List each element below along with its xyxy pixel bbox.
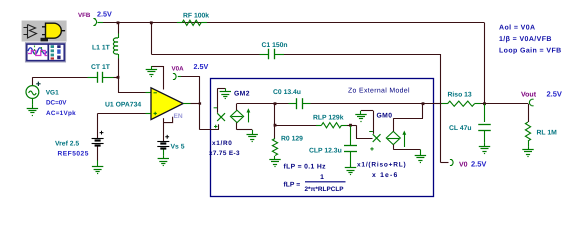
- wire: GM2 out to C0: [237, 103, 289, 105]
- resistor RL: [528, 104, 530, 122]
- svg-text:AC=1Vpk: AC=1Vpk: [46, 110, 76, 117]
- wire: top feedback net VFB: [103, 22, 485, 24]
- opamp input polarity marks: [154, 92, 157, 94]
- junction at R0 branch: [274, 102, 277, 105]
- wire: CLP node to GM0 X input: [351, 125, 357, 127]
- svg-text:2.5V: 2.5V: [194, 62, 209, 71]
- wire: GM2 diamond top to C0 net: [236, 104, 238, 111]
- svg-text:Aol = V0A: Aol = V0A: [499, 24, 535, 32]
- svg-text:Zo External Model: Zo External Model: [348, 88, 410, 95]
- wire: inverting input branch: [118, 77, 120, 93]
- Zo External Model box: [211, 79, 434, 197]
- wire: opamp output into GM2 input: [199, 104, 201, 130]
- svg-text:fLP = 0.1 Hz: fLP = 0.1 Hz: [284, 164, 327, 171]
- resistor RLP: [316, 125, 322, 127]
- wire: GM2 X top to ground: [217, 88, 219, 113]
- plus mark VG1: [36, 82, 40, 86]
- dependent source GM2 diamond: [230, 110, 243, 122]
- svg-text:CLP 12.3u: CLP 12.3u: [309, 148, 342, 155]
- svg-text:Vref 2.5: Vref 2.5: [55, 141, 79, 148]
- junction at RLP branch: [274, 124, 277, 127]
- wire: R0 branch vertical: [274, 104, 276, 139]
- node V0 voltage probe: [451, 160, 453, 166]
- ground at R0: [274, 156, 276, 159]
- wire: opamp V+ pin to ground: [163, 66, 165, 90]
- ground at Vs: [163, 150, 165, 156]
- svg-text:x1/R0: x1/R0: [212, 140, 233, 147]
- capacitor C1: [260, 54, 269, 56]
- svg-text:fLP =: fLP =: [284, 182, 301, 189]
- svg-text:GM2: GM2: [234, 91, 250, 98]
- svg-text:U1 OPA734: U1 OPA734: [105, 102, 141, 109]
- svg-text:GM0: GM0: [377, 113, 393, 120]
- junction at CLP: [349, 124, 352, 127]
- icon toolbar: results list button: [47, 44, 49, 61]
- junction at C1 branch: [150, 21, 153, 24]
- icon toolbar: gate symbols button: [22, 21, 67, 42]
- ground at VG1: [32, 98, 34, 104]
- wire: EN pin jog: [163, 117, 172, 123]
- wire: opamp V- pin to Vs battery: [163, 118, 165, 141]
- svg-text:RLP 129k: RLP 129k: [313, 115, 344, 122]
- ground at Vref: [97, 147, 99, 161]
- ground at GM0 output: [420, 150, 422, 156]
- wire: V0 probe stub: [441, 162, 449, 164]
- wire: L1 to CT junction: [118, 70, 120, 77]
- wire: GM2 diamond bottom to ground: [236, 123, 238, 130]
- svg-text:2.5V: 2.5V: [547, 90, 562, 99]
- wire: GM0 X top to ground: [373, 111, 375, 134]
- svg-text:1/β = V0A/VFB: 1/β = V0A/VFB: [499, 35, 552, 43]
- svg-text:2.5V: 2.5V: [471, 160, 486, 169]
- svg-text:Loop Gain = VFB: Loop Gain = VFB: [499, 47, 562, 55]
- ground at GM0 input: [360, 111, 362, 114]
- junction at GM0 output: [422, 102, 425, 105]
- node Vout voltage probe: [529, 100, 531, 106]
- junction at L1 top: [117, 21, 120, 24]
- wire: RF feedback vertical to output node: [484, 23, 486, 104]
- svg-text:CL 47u: CL 47u: [449, 125, 472, 132]
- wire: V0A probe branch: [199, 77, 201, 104]
- multiplier X GM2: [217, 113, 225, 121]
- inductor L1: [118, 23, 120, 34]
- svg-text:RF 100k: RF 100k: [183, 13, 209, 20]
- wire: VG1 to CT: [32, 77, 87, 79]
- ground at GM2 output: [252, 130, 254, 135]
- svg-text:x7.75 E-3: x7.75 E-3: [209, 150, 240, 157]
- resistor RF (in top wire): [177, 22, 182, 24]
- capacitor CT: [88, 77, 98, 79]
- svg-text:x1/(Riso+RL): x1/(Riso+RL): [357, 162, 407, 169]
- svg-text:C1 150n: C1 150n: [262, 42, 288, 49]
- ground at CL: [484, 143, 486, 146]
- svg-text:V0: V0: [459, 162, 468, 169]
- battery Vs: [157, 141, 169, 143]
- junction at output/V0A: [199, 102, 201, 104]
- plus mark GM0 input: [370, 147, 373, 150]
- wire: C1 to V0 sense vertical: [284, 54, 441, 56]
- svg-text:1: 1: [320, 174, 324, 181]
- ground at RL: [528, 146, 530, 149]
- ground at opamp V+: [151, 66, 153, 69]
- plus mark Vref: [100, 131, 104, 135]
- icon toolbar: waveform viewer button: [26, 43, 66, 62]
- svg-text:CT 1T: CT 1T: [91, 64, 111, 71]
- wire: Riso to Vout node: [481, 103, 529, 105]
- node V0A voltage probe: [174, 74, 176, 80]
- svg-text:DC=0V: DC=0V: [46, 100, 67, 107]
- svg-text:x 1e-6: x 1e-6: [372, 172, 398, 179]
- plus mark GM2 input: [214, 125, 217, 128]
- svg-text:Vs 5: Vs 5: [171, 144, 185, 151]
- multiplier X GM0: [373, 134, 381, 142]
- ground at CLP: [350, 165, 352, 168]
- wire: C1 branch down from top net: [151, 23, 153, 54]
- GM0 current arrow: [404, 134, 406, 148]
- svg-text:REF5025: REF5025: [58, 151, 89, 158]
- wire: RLP branch horizontal: [275, 125, 316, 127]
- node VFB voltage probe: [95, 19, 97, 25]
- minus mark GM0 input: [369, 131, 373, 133]
- svg-text:VFB: VFB: [78, 12, 91, 19]
- wire: GM0 diamond top to output net: [393, 118, 395, 131]
- svg-text:RL 1M: RL 1M: [537, 130, 558, 137]
- svg-text:V0A: V0A: [172, 66, 185, 73]
- wire: C1 branch horizontal: [151, 54, 259, 56]
- svg-text:VG1: VG1: [46, 89, 59, 96]
- svg-text:EN: EN: [174, 113, 183, 120]
- ground at GM2 input: [225, 88, 227, 91]
- op-amp U1 OPA734: [151, 88, 183, 120]
- capacitor CL: [484, 104, 486, 122]
- svg-text:C0 13.4u: C0 13.4u: [273, 89, 301, 96]
- resistor R0: [272, 139, 277, 156]
- dependent source GM0 diamond: [386, 131, 400, 144]
- svg-text:Riso 13: Riso 13: [448, 92, 472, 99]
- resistor Riso: [434, 103, 442, 105]
- junction at CL / feedback: [483, 102, 486, 105]
- svg-text:2*π*RLPCLP: 2*π*RLPCLP: [305, 186, 345, 193]
- svg-text:R0 129: R0 129: [281, 136, 303, 143]
- capacitor CLP: [350, 125, 352, 146]
- svg-text:L1 1T: L1 1T: [92, 45, 111, 52]
- capacitor C0: [289, 103, 297, 105]
- GM2 current arrow: [248, 111, 250, 122]
- wire: non-inverting input to Vref: [98, 113, 146, 115]
- svg-text:2.5V: 2.5V: [97, 10, 112, 19]
- battery Vref 2.5 REF5025: [92, 138, 104, 140]
- wire: C0 to GM0/output net: [311, 103, 435, 105]
- wire: GM0 diamond bottom to ground: [393, 145, 395, 150]
- minus mark GM2 input: [214, 107, 218, 109]
- svg-text:Vout: Vout: [521, 92, 537, 99]
- voltage source VG1: [26, 86, 39, 99]
- wire: opamp output: [183, 103, 190, 105]
- plus mark Vs: [165, 135, 169, 139]
- junction at CT / inverting input: [117, 76, 120, 79]
